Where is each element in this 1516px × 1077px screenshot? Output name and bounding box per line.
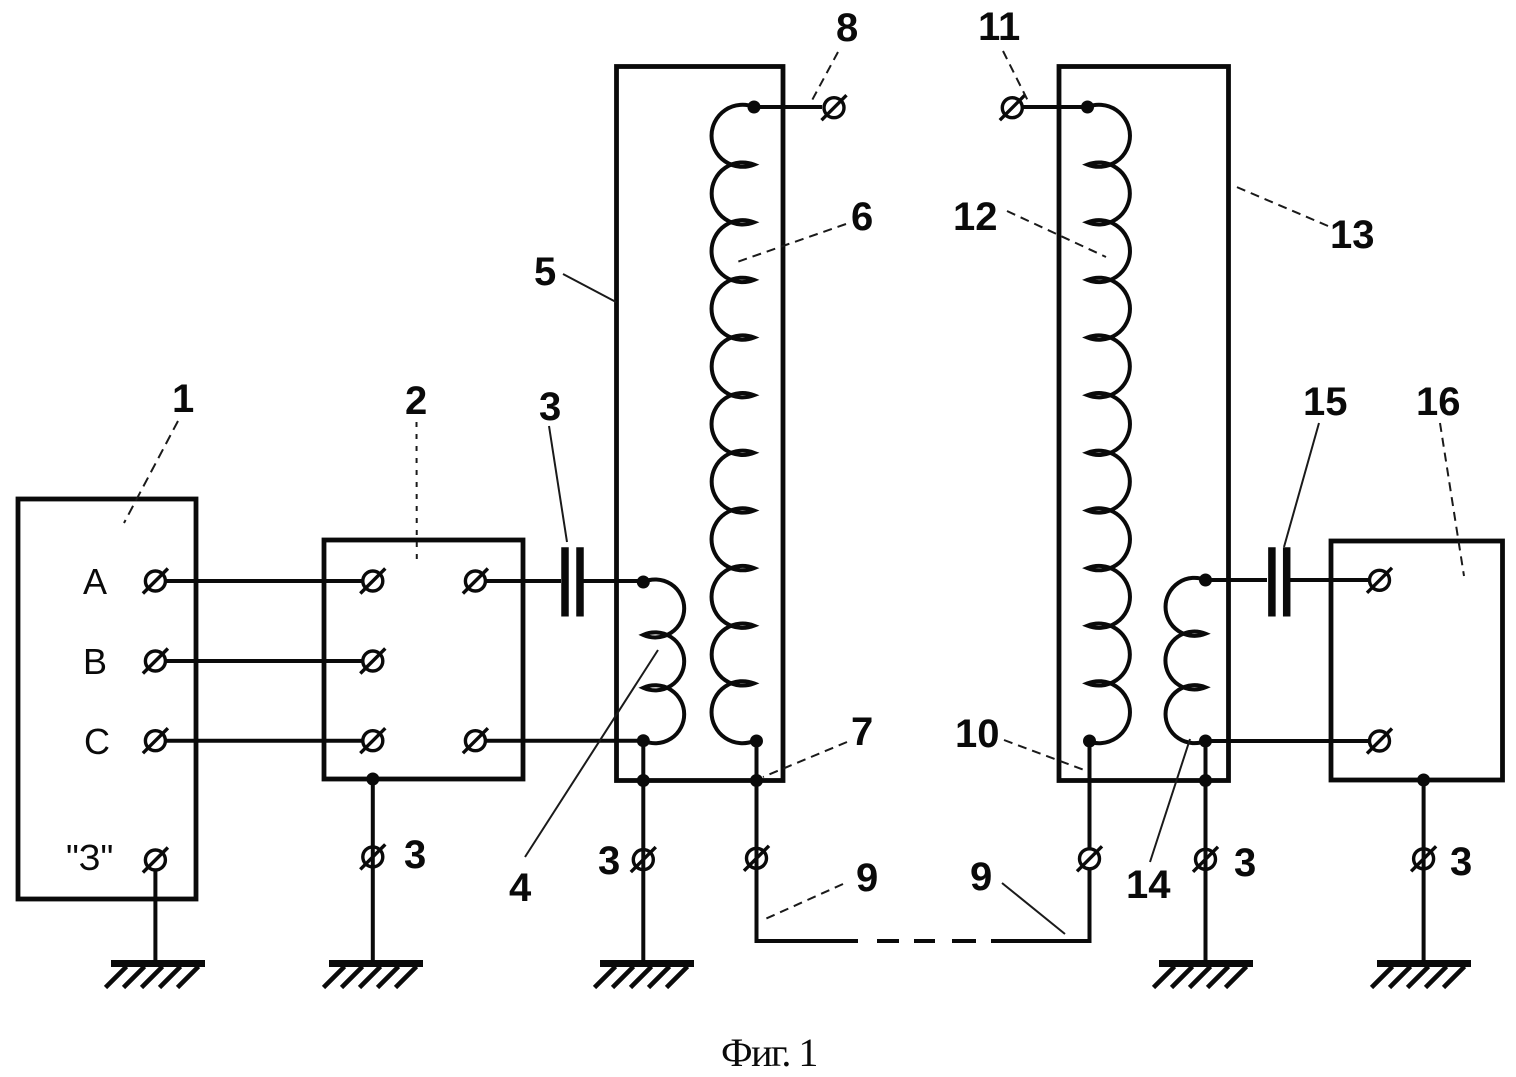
wire 9 dashed middle [877, 939, 899, 943]
wire phase C box1 to box2 [166, 739, 361, 743]
wire "З" terminal to ground [153, 870, 157, 961]
node at top of coil 6 [748, 101, 761, 114]
wire box2 terminal C to coil 4 bottom node [486, 739, 643, 743]
svg-text:7: 7 [851, 710, 873, 754]
node at top of coil 14 [1199, 574, 1212, 587]
svg-text:11: 11 [978, 5, 1020, 49]
label 3 (capacitor) with leader [539, 385, 567, 542]
wire 9 left solid part [757, 869, 859, 941]
terminal on box2 ground wire [360, 844, 385, 869]
label 15 with leader [1284, 380, 1348, 547]
wire terminal 11 to coil 12 [1022, 105, 1088, 109]
label 2 with leader [405, 379, 427, 565]
svg-text:4: 4 [509, 866, 532, 910]
svg-text:8: 8 [836, 6, 858, 50]
svg-text:"З": "З" [66, 837, 113, 878]
wire coil14 bottom node down to ground [1204, 741, 1208, 961]
label 4 with leader [509, 650, 658, 910]
svg-text:9: 9 [970, 855, 992, 899]
svg-text:15: 15 [1303, 380, 1348, 424]
label 11 with leader [978, 5, 1029, 103]
svg-text:9: 9 [856, 856, 878, 900]
capacitor C3 [565, 547, 580, 616]
wire phase B box1 to box2 [166, 659, 361, 663]
terminal on wire 9 right [1077, 846, 1102, 871]
svg-text:12: 12 [953, 195, 998, 239]
wire coil6 top to terminal 8 [754, 105, 822, 109]
label 13 with leader [1232, 185, 1375, 257]
switch block box 2 [324, 540, 523, 779]
terminal C left of box 2 [360, 728, 385, 753]
svg-text:3: 3 [404, 833, 426, 877]
label 10 with leader [955, 712, 1084, 770]
svg-text:6: 6 [851, 195, 873, 239]
label 9 right with leader [970, 855, 1065, 934]
terminal lower of box 16 [1367, 729, 1392, 754]
label 14 with leader [1126, 739, 1190, 907]
svg-text:3: 3 [1234, 841, 1256, 885]
wire phase A box1 to box2 [166, 579, 361, 583]
junction dot on box5 bottom edge (left) [637, 774, 650, 787]
svg-text:Фиг. 1: Фиг. 1 [721, 1030, 817, 1075]
terminal upper of box 16 [1367, 568, 1392, 593]
wire box2 terminal A to capacitor 3 [486, 579, 561, 583]
terminal C of box 1 [143, 728, 168, 753]
node at bottom of box 2 [366, 773, 379, 786]
node at top of coil 4 [637, 576, 650, 589]
converter box 13 [1059, 67, 1229, 781]
wire 9 right solid part [991, 870, 1090, 941]
svg-text:3: 3 [598, 839, 620, 883]
terminal A left of box 2 [360, 569, 385, 594]
terminal on box16 ground wire [1411, 846, 1436, 871]
wire box2 node to ground [371, 779, 375, 961]
svg-text:3: 3 [1450, 840, 1472, 884]
wire terminal up to node 10 [1088, 741, 1092, 848]
svg-text:1: 1 [172, 377, 194, 421]
terminal B of box 1 [143, 649, 168, 674]
load block box 16 [1331, 541, 1503, 780]
winding 4 (primary, small coil) [643, 579, 684, 743]
wire capacitor 15 to box 16 terminal [1290, 578, 1368, 582]
svg-text:С: С [84, 721, 110, 762]
ground under box 16 [1372, 964, 1472, 988]
winding 14 (small coil) [1165, 578, 1205, 743]
wire box16 node to ground [1422, 780, 1426, 961]
ground under box 2 [324, 964, 424, 988]
node 7 at bottom of coil 6 [750, 735, 763, 748]
source block box 1 [18, 499, 196, 899]
wire 7 from coil6 bottom down [755, 741, 759, 941]
node at top of coil 12 [1081, 101, 1094, 114]
wire coil14 top to capacitor 15 [1206, 578, 1268, 582]
svg-text:14: 14 [1126, 863, 1171, 907]
terminal B left of box 2 [360, 649, 385, 674]
wire capacitor 3 to coil 4 node [583, 579, 644, 583]
terminal A right of box 2 [463, 569, 488, 594]
label 1 with leader [124, 377, 194, 523]
node 10 at bottom of coil 12 [1083, 735, 1096, 748]
junction dot on box13 bottom edge [1199, 774, 1212, 787]
label 16 with leader [1416, 380, 1464, 576]
svg-text:А: А [83, 561, 107, 602]
svg-text:2: 2 [405, 379, 427, 423]
converter box 5 [617, 67, 784, 781]
winding 12 (tall coil) [1088, 105, 1130, 743]
svg-text:3: 3 [539, 385, 561, 429]
label 12 with leader [953, 195, 1106, 257]
node at bottom of box 16 [1417, 774, 1430, 787]
ground under box 13 [1154, 964, 1254, 988]
terminal on box13 ground wire [1193, 847, 1218, 872]
terminal on box5 left ground wire [631, 847, 656, 872]
label 7 with leader [763, 710, 873, 777]
ground under box 5 [595, 964, 695, 988]
node at bottom of coil 4 [637, 734, 650, 747]
label 8 with leader [810, 6, 858, 104]
svg-text:13: 13 [1330, 213, 1375, 257]
wire coil4 bottom node down to ground [641, 741, 645, 961]
terminal 11 [1000, 95, 1025, 120]
terminal on wire 9 left [744, 846, 769, 871]
capacitor C15 [1272, 547, 1287, 616]
terminal C right of box 2 [463, 728, 488, 753]
label 6 with leader [737, 195, 873, 262]
label 9 left with leader [763, 856, 878, 920]
winding 6 (secondary, tall coil) [712, 105, 754, 743]
ground under box 1 [106, 964, 206, 988]
terminal A of box 1 [143, 569, 168, 594]
label 5 with leader [534, 250, 616, 302]
svg-text:10: 10 [955, 712, 1000, 756]
node at bottom of coil 14 [1199, 735, 1212, 748]
svg-text:5: 5 [534, 250, 556, 294]
terminal "З" of box 1 [143, 848, 168, 873]
junction dot on box5 bottom edge (right) [750, 774, 763, 787]
wire coil14 bottom to box16 lower terminal [1206, 739, 1369, 743]
svg-text:В: В [83, 641, 107, 682]
terminal 8 [822, 95, 847, 120]
svg-text:16: 16 [1416, 380, 1461, 424]
